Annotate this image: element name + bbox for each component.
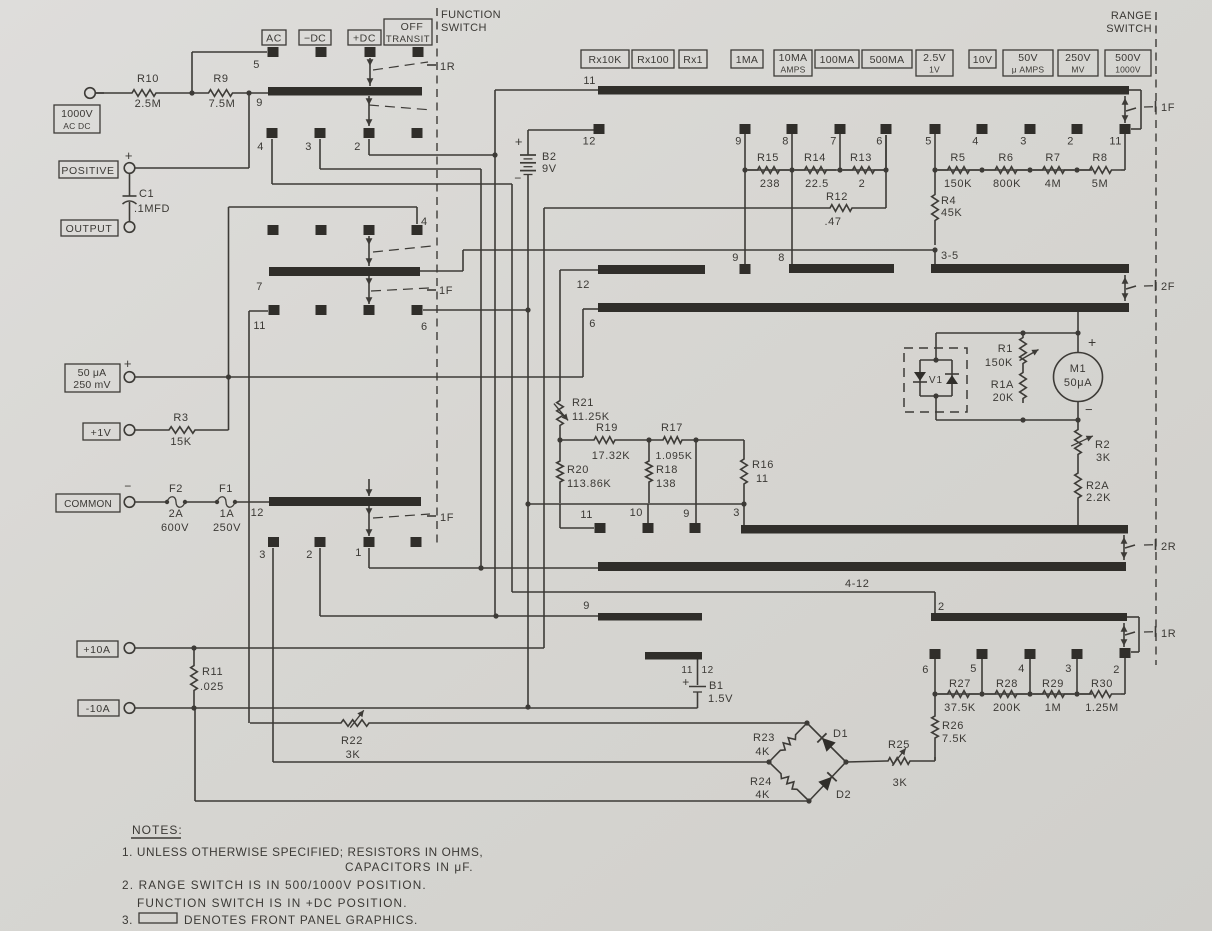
- svg-text:AC DC: AC DC: [63, 121, 90, 131]
- front panel label 1MA: [731, 50, 763, 68]
- svg-text:R11: R11: [202, 666, 223, 678]
- wire +10A up through R12 net: [543, 208, 545, 648]
- svg-text:Rx100: Rx100: [637, 54, 669, 66]
- svg-text:+: +: [125, 148, 133, 163]
- wire wafer3 contact2 to 9 bar: [319, 548, 321, 616]
- front panel label Rx100: [632, 50, 674, 68]
- svg-text:50μA: 50μA: [1064, 377, 1092, 389]
- svg-text:.1MFD: .1MFD: [134, 203, 170, 215]
- wire POSITIVE net to wafer2 contact4: [229, 206, 418, 208]
- svg-text:7: 7: [830, 136, 837, 148]
- wire R16 to 2R bar: [743, 504, 745, 525]
- front panel label 2.5V 1V: [916, 50, 953, 76]
- switch wafer 1F-front top contacts: [268, 225, 279, 235]
- svg-text:2.5M: 2.5M: [135, 98, 162, 110]
- svg-text:600V: 600V: [161, 522, 189, 534]
- svg-text:9: 9: [583, 600, 590, 612]
- fuse F1 1A 250V: [185, 501, 217, 503]
- svg-text:R4: R4: [941, 195, 956, 207]
- svg-text:4M: 4M: [1045, 178, 1061, 190]
- svg-text:C1: C1: [139, 188, 154, 200]
- function switch dashed boundary line: [436, 8, 438, 545]
- svg-text:6: 6: [421, 321, 428, 333]
- wire meter top rail: [936, 332, 1078, 334]
- svg-text:R29: R29: [1042, 678, 1064, 690]
- svg-text:B2: B2: [542, 151, 557, 163]
- svg-text:R17: R17: [661, 422, 683, 434]
- svg-text:R14: R14: [804, 152, 826, 164]
- resistor R27 37.5K: [938, 691, 979, 698]
- svg-text:R26: R26: [942, 720, 964, 732]
- wire contact6 to R12: [885, 135, 887, 170]
- range 2R wiper arrows: [1123, 535, 1125, 560]
- wire common-net vertical x249: [248, 311, 250, 723]
- svg-text:500V: 500V: [1115, 52, 1141, 64]
- svg-text:11: 11: [1109, 136, 1122, 148]
- svg-text:1000V: 1000V: [61, 108, 93, 120]
- svg-text:3: 3: [1065, 663, 1072, 675]
- wire R26 bottom corner: [934, 757, 936, 760]
- wire contact5 down: [934, 134, 936, 170]
- range 2F wiper arrows: [1124, 275, 1126, 301]
- range 2F tick label: [1144, 285, 1154, 287]
- wire 1R contacts down: [934, 659, 936, 694]
- terminal +10A: [77, 641, 118, 657]
- svg-text:1.25M: 1.25M: [1085, 702, 1119, 714]
- svg-text:7.5K: 7.5K: [942, 733, 967, 745]
- range 2R contact bar: [741, 525, 1128, 534]
- svg-text:FUNCTION: FUNCTION: [441, 9, 501, 21]
- wafer 1R gang dashes to 1R tick: [373, 62, 428, 70]
- svg-text:4: 4: [257, 141, 264, 153]
- wire wafer1R contact3 down: [319, 139, 321, 169]
- wire vertical contact3 net: [480, 169, 482, 568]
- svg-text:+: +: [515, 134, 523, 149]
- svg-text:R16: R16: [752, 459, 774, 471]
- svg-text:+10A: +10A: [83, 644, 110, 656]
- svg-text:R24: R24: [750, 776, 772, 788]
- svg-text:4K: 4K: [755, 746, 770, 758]
- svg-text:2: 2: [859, 178, 866, 190]
- svg-text:μ AMPS: μ AMPS: [1012, 65, 1045, 75]
- svg-text:NOTES:: NOTES:: [132, 823, 183, 837]
- range wafer 1F wiper bracket: [1129, 89, 1141, 91]
- resistor R20 113.86K: [557, 440, 564, 503]
- wire R9 junction down to POSITIVE: [248, 93, 250, 168]
- range 1R tick label: [1144, 631, 1154, 633]
- front panel label Rx10K: [581, 50, 629, 68]
- svg-text:9V: 9V: [542, 163, 557, 175]
- front panel label 250V MV: [1058, 50, 1098, 76]
- range 1R wiper bracket: [1127, 616, 1139, 618]
- svg-text:238: 238: [760, 178, 780, 190]
- svg-text:MV: MV: [1071, 65, 1084, 75]
- wire wafer3 contact3 down to bridge: [272, 548, 274, 762]
- svg-text:8: 8: [778, 252, 785, 264]
- svg-text:50V: 50V: [1018, 52, 1038, 64]
- svg-text:250V: 250V: [1065, 52, 1091, 64]
- svg-text:−: −: [514, 171, 522, 185]
- resistor R17 1.095K: [649, 437, 696, 444]
- wire 3-5 down to bar: [934, 250, 936, 264]
- svg-text:9: 9: [683, 508, 690, 520]
- switch wafer 1R top contacts: [268, 47, 279, 57]
- svg-text:1F: 1F: [440, 512, 454, 524]
- svg-text:5M: 5M: [1092, 178, 1108, 190]
- battery B2 9V: [527, 130, 529, 155]
- front panel label 10MA AMPS: [774, 50, 812, 76]
- range wafer 1F rotor bar: [598, 86, 1129, 95]
- svg-text:3K: 3K: [893, 777, 908, 789]
- range 2F contact bar 12: [598, 265, 705, 274]
- svg-text:113.86K: 113.86K: [567, 478, 611, 490]
- svg-text:5: 5: [970, 663, 977, 675]
- node R17 right: [693, 437, 698, 442]
- resistor R19 17.32K: [560, 437, 649, 444]
- switch wafer 1F-rear rotor bar: [269, 497, 421, 506]
- range 2F contact bar 8: [789, 264, 894, 273]
- svg-text:+: +: [682, 675, 690, 689]
- svg-text:R18: R18: [656, 464, 678, 476]
- svg-text:D2: D2: [836, 789, 851, 801]
- svg-text:COMMON: COMMON: [64, 499, 112, 510]
- front panel label 50V uAMPS: [1003, 50, 1053, 76]
- svg-text:250V: 250V: [213, 522, 241, 534]
- wire meter bottom rail: [936, 419, 1078, 421]
- wafer 1F-front gang dashes: [373, 246, 432, 252]
- terminal +1V: [83, 423, 120, 440]
- wire to range bar 11: [495, 89, 598, 91]
- svg-text:R9: R9: [213, 73, 228, 85]
- svg-text:2.2K: 2.2K: [1086, 492, 1111, 504]
- wire bridge top rail / R22 net: [250, 722, 338, 724]
- wire M1 leads: [1077, 333, 1079, 352]
- svg-text:R7: R7: [1045, 152, 1060, 164]
- svg-text:+: +: [1088, 334, 1097, 350]
- svg-text:4: 4: [421, 216, 428, 228]
- wire R25 to R26 column: [912, 760, 935, 762]
- terminal 50uA 250mV: [65, 364, 120, 392]
- svg-text:1: 1: [355, 547, 362, 559]
- svg-text:11: 11: [756, 473, 769, 485]
- resistor R6 800K: [985, 167, 1027, 174]
- svg-text:R21: R21: [572, 397, 594, 409]
- svg-text:138: 138: [656, 478, 676, 490]
- svg-text:1.095K: 1.095K: [656, 450, 693, 462]
- wire wafer3 contact1 to 2R bar: [368, 548, 370, 568]
- wire wafer2 contact11 to common net: [249, 310, 268, 312]
- fuse F2 2A 600V: [135, 501, 167, 503]
- wire R12 to range contact 6: [885, 135, 887, 208]
- svg-text:R19: R19: [596, 422, 618, 434]
- svg-text:20K: 20K: [993, 392, 1014, 404]
- wafer 1F-rear wiper arrows: [368, 479, 370, 496]
- svg-text:22.5: 22.5: [805, 178, 829, 190]
- svg-text:6: 6: [589, 318, 596, 330]
- diode pair V1 inner box: [920, 359, 952, 361]
- svg-text:7: 7: [256, 281, 263, 293]
- resistor R14 22.5: [795, 167, 836, 174]
- wafer 1R wiper arrows: [369, 58, 371, 86]
- wire network bottom rail: [528, 503, 744, 505]
- svg-text:4-12: 4-12: [845, 578, 869, 590]
- svg-text:10: 10: [630, 507, 643, 519]
- battery B1 1.5V: [697, 660, 699, 686]
- resistor R21 11.25K variable: [557, 398, 564, 428]
- wire bridge bottom rail: [195, 800, 809, 802]
- wire contact7 to R13 junction: [839, 134, 841, 170]
- svg-text:SWITCH: SWITCH: [1106, 23, 1152, 35]
- svg-text:R15: R15: [757, 152, 779, 164]
- svg-text:+DC: +DC: [353, 33, 376, 45]
- svg-text:800K: 800K: [993, 178, 1021, 190]
- svg-text:+1V: +1V: [91, 427, 112, 439]
- wire junction to contact5 of wafer 1R: [191, 52, 193, 93]
- bridge node bottom: [806, 798, 811, 803]
- wire B2+ to range contact 12: [528, 129, 594, 131]
- svg-text:150K: 150K: [985, 357, 1013, 369]
- range 1R wiper arrows: [1123, 623, 1125, 647]
- diode D1 (bridge upper-right): [807, 723, 846, 762]
- svg-text:Rx1: Rx1: [683, 54, 703, 66]
- wire 50uA up to 2F bar: [582, 309, 584, 377]
- svg-text:6: 6: [876, 136, 883, 148]
- svg-text:R2: R2: [1095, 439, 1110, 451]
- range 2F contact bar 3-5: [931, 264, 1129, 273]
- svg-text:11: 11: [253, 320, 266, 332]
- resistor R24 4K (bridge lower-left): [769, 762, 809, 801]
- wire wafer2 bar to 3-5 wire: [420, 270, 463, 272]
- front panel label 500V 1000V: [1105, 50, 1151, 76]
- range 1R rotor bar: [931, 613, 1127, 621]
- svg-text:R27: R27: [949, 678, 971, 690]
- svg-text:9: 9: [735, 136, 742, 148]
- wire R30 up to contact 2: [1124, 658, 1126, 694]
- svg-text:R23: R23: [753, 732, 775, 744]
- front panel label OFF TRANSIT: [384, 19, 432, 45]
- wire to contact 11 row2b: [559, 504, 561, 528]
- resistor R3 15K: [135, 429, 152, 431]
- svg-text:1F: 1F: [439, 285, 453, 297]
- svg-text:2R: 2R: [1161, 541, 1176, 553]
- wire 1000V terminal to R10: [96, 92, 105, 94]
- front panel label -DC: [299, 30, 331, 45]
- range 1R contacts: [930, 649, 941, 659]
- wire contact9 up to R17 node: [695, 440, 697, 523]
- resistor R10 2.5M: [96, 90, 192, 97]
- svg-text:7.5M: 7.5M: [209, 98, 236, 110]
- svg-text:50 μA: 50 μA: [78, 367, 107, 379]
- resistor R23 4K (bridge upper-left): [769, 723, 807, 762]
- svg-text:3K: 3K: [1096, 452, 1111, 464]
- switch wafer 1F-rear contacts: [268, 537, 279, 547]
- wire R22 to bridge top: [372, 722, 807, 724]
- diode V1 right (cathode up): [946, 375, 958, 384]
- svg-text:12: 12: [577, 279, 590, 291]
- svg-text:R30: R30: [1091, 678, 1113, 690]
- resistor R29 1M: [1033, 691, 1074, 698]
- resistor R25 3K variable: [886, 758, 912, 765]
- front panel label 500MA: [862, 50, 912, 68]
- svg-text:AMPS: AMPS: [781, 65, 806, 75]
- resistor R9 7.5M: [192, 90, 249, 97]
- svg-text:DENOTES FRONT PANEL GRAPHICS.: DENOTES FRONT PANEL GRAPHICS.: [184, 913, 418, 927]
- svg-text:F2: F2: [169, 483, 183, 495]
- dot contact3 wire on 2R rotor wire: [478, 565, 483, 570]
- svg-text:F1: F1: [219, 483, 233, 495]
- svg-text:R13: R13: [850, 152, 872, 164]
- resistor R15 238: [748, 167, 789, 174]
- svg-text:5: 5: [253, 59, 260, 71]
- front panel label AC: [262, 30, 286, 45]
- svg-text:1000V: 1000V: [1115, 65, 1141, 75]
- switch wafer 1R bottom contacts: [267, 128, 278, 138]
- svg-text:3: 3: [1020, 136, 1027, 148]
- terminal OUTPUT: [61, 220, 118, 236]
- range 1R contact bar 9: [598, 613, 702, 621]
- svg-text:R1: R1: [998, 343, 1013, 355]
- resistor R4 45K: [932, 170, 939, 245]
- resistor R8 5M: [1080, 167, 1121, 174]
- front panel label 100MA: [815, 50, 859, 68]
- svg-text:R6: R6: [998, 152, 1013, 164]
- range 2F rotor bar: [598, 303, 1129, 312]
- svg-text:1V: 1V: [929, 65, 940, 75]
- svg-text:SWITCH: SWITCH: [441, 22, 487, 34]
- svg-text:12: 12: [702, 665, 714, 676]
- wire R5-R8 row: [935, 169, 1092, 171]
- wire node9 to 1R bar: [249, 92, 268, 94]
- wire R17 to R16: [696, 439, 744, 441]
- svg-text:POSITIVE: POSITIVE: [61, 165, 114, 177]
- wire bridge right to R25: [846, 761, 886, 762]
- svg-text:4: 4: [972, 136, 979, 148]
- svg-text:AC: AC: [266, 33, 282, 45]
- svg-text:M1: M1: [1070, 363, 1086, 375]
- range wafer 1F wiper arrows: [1124, 96, 1126, 123]
- range 2F contact 9 square: [740, 264, 751, 274]
- wire B2- long vertical: [527, 175, 529, 709]
- switch wafer 1R rotor bar: [268, 87, 422, 96]
- svg-text:10V: 10V: [973, 54, 993, 66]
- svg-text:3-5: 3-5: [941, 250, 959, 262]
- svg-text:4: 4: [1018, 663, 1025, 675]
- wire 50uA run: [135, 376, 583, 378]
- svg-text:2: 2: [1067, 136, 1074, 148]
- svg-text:6: 6: [922, 664, 929, 676]
- switch wafer 1F-front rotor bar: [269, 267, 420, 276]
- svg-text:3K: 3K: [346, 749, 361, 761]
- svg-text:10MA: 10MA: [779, 52, 808, 64]
- resistor R22 3K variable: [338, 720, 372, 727]
- svg-text:FUNCTION SWITCH IS IN +DC POSI: FUNCTION SWITCH IS IN +DC POSITION.: [137, 896, 408, 910]
- range 1F tick label: [1144, 106, 1154, 108]
- range 2R rotor bar: [598, 562, 1126, 571]
- bridge node left: [766, 759, 771, 764]
- front panel label 10V: [969, 50, 996, 68]
- resistor R30 1.25M: [1080, 691, 1121, 698]
- svg-text:100MA: 100MA: [820, 54, 855, 66]
- wire R8 up to contact 11: [1124, 134, 1126, 170]
- wire wafer1R contact4 down: [271, 139, 273, 184]
- resistor R1 150K variable: [1020, 333, 1027, 368]
- front panel label Rx1: [679, 50, 707, 68]
- resistor R26 7.5K: [932, 694, 939, 760]
- svg-text:1.5V: 1.5V: [708, 693, 733, 705]
- wire vertical contact2/B2+ net: [494, 90, 496, 616]
- terminal 1000V AC DC: [54, 105, 100, 133]
- range 1R contact bar B1: [645, 652, 702, 660]
- svg-text:OFF: OFF: [401, 21, 424, 33]
- resistor R13 2: [843, 167, 884, 174]
- svg-text:R3: R3: [173, 412, 188, 424]
- svg-text:37.5K: 37.5K: [944, 702, 976, 714]
- svg-text:R20: R20: [567, 464, 589, 476]
- capacitor C1 .1MFD: [129, 174, 131, 197]
- svg-text:3: 3: [733, 507, 740, 519]
- diode pair V1 dashed box: [904, 348, 967, 412]
- wire V1 feeds: [935, 333, 937, 360]
- wafer 1F-front wiper arrows: [368, 236, 370, 266]
- diode D2 (bridge lower-right): [809, 762, 846, 801]
- wire wafer1R contact2 to node: [368, 139, 370, 155]
- range 2R tick label: [1144, 544, 1154, 546]
- resistor R2A 2.2K: [1075, 464, 1082, 507]
- bridge node right: [843, 759, 848, 764]
- svg-text:−DC: −DC: [304, 33, 326, 45]
- svg-text:9: 9: [256, 97, 263, 109]
- wire R15-R13 row: [745, 169, 886, 171]
- svg-text:1A: 1A: [220, 508, 235, 520]
- svg-text:2: 2: [306, 549, 313, 561]
- svg-text:R2A: R2A: [1086, 480, 1109, 492]
- svg-text:R1A: R1A: [991, 379, 1014, 391]
- svg-text:1R: 1R: [1161, 628, 1176, 640]
- svg-text:.025: .025: [200, 681, 224, 693]
- svg-text:200K: 200K: [993, 702, 1021, 714]
- resistor R28 200K: [985, 691, 1027, 698]
- terminal -10A: [78, 700, 119, 716]
- svg-text:R10: R10: [137, 73, 159, 85]
- wire contact9 to R15 and row2 contact: [744, 134, 746, 264]
- svg-text:45K: 45K: [941, 207, 962, 219]
- svg-text:1M: 1M: [1045, 702, 1061, 714]
- svg-text:250 mV: 250 mV: [73, 379, 110, 391]
- svg-text:2: 2: [1113, 664, 1120, 676]
- wire -10A run: [135, 707, 698, 709]
- resistor R2 3K variable: [1075, 420, 1082, 464]
- range 2R front contacts 11 10 9: [595, 523, 606, 533]
- svg-text:3: 3: [259, 549, 266, 561]
- svg-text:OUTPUT: OUTPUT: [66, 223, 113, 235]
- wire R27-R30 row: [935, 693, 1092, 695]
- resistor R12 .47: [824, 205, 858, 212]
- wire 2F bar down to meter: [1077, 312, 1079, 333]
- svg-text:2: 2: [354, 141, 361, 153]
- node R19-R17: [646, 437, 651, 442]
- svg-text:5: 5: [925, 136, 932, 148]
- wire contact10 up to R18: [647, 504, 649, 523]
- resistor R1A 20K: [1020, 368, 1027, 403]
- wire COMMON to wafer 1F rear bar: [235, 501, 269, 503]
- svg-text:12: 12: [251, 507, 264, 519]
- svg-text:+: +: [124, 356, 132, 371]
- svg-text:1. UNLESS OTHERWISE SPECIFIED;: 1. UNLESS OTHERWISE SPECIFIED; RESISTORS…: [122, 845, 483, 859]
- node 3-5 junction: [932, 247, 937, 252]
- svg-text:3.: 3.: [122, 913, 133, 927]
- wire vertical contact4 net / 4-12: [511, 184, 513, 592]
- wire wafer2 contact6 to B2- net: [423, 309, 528, 311]
